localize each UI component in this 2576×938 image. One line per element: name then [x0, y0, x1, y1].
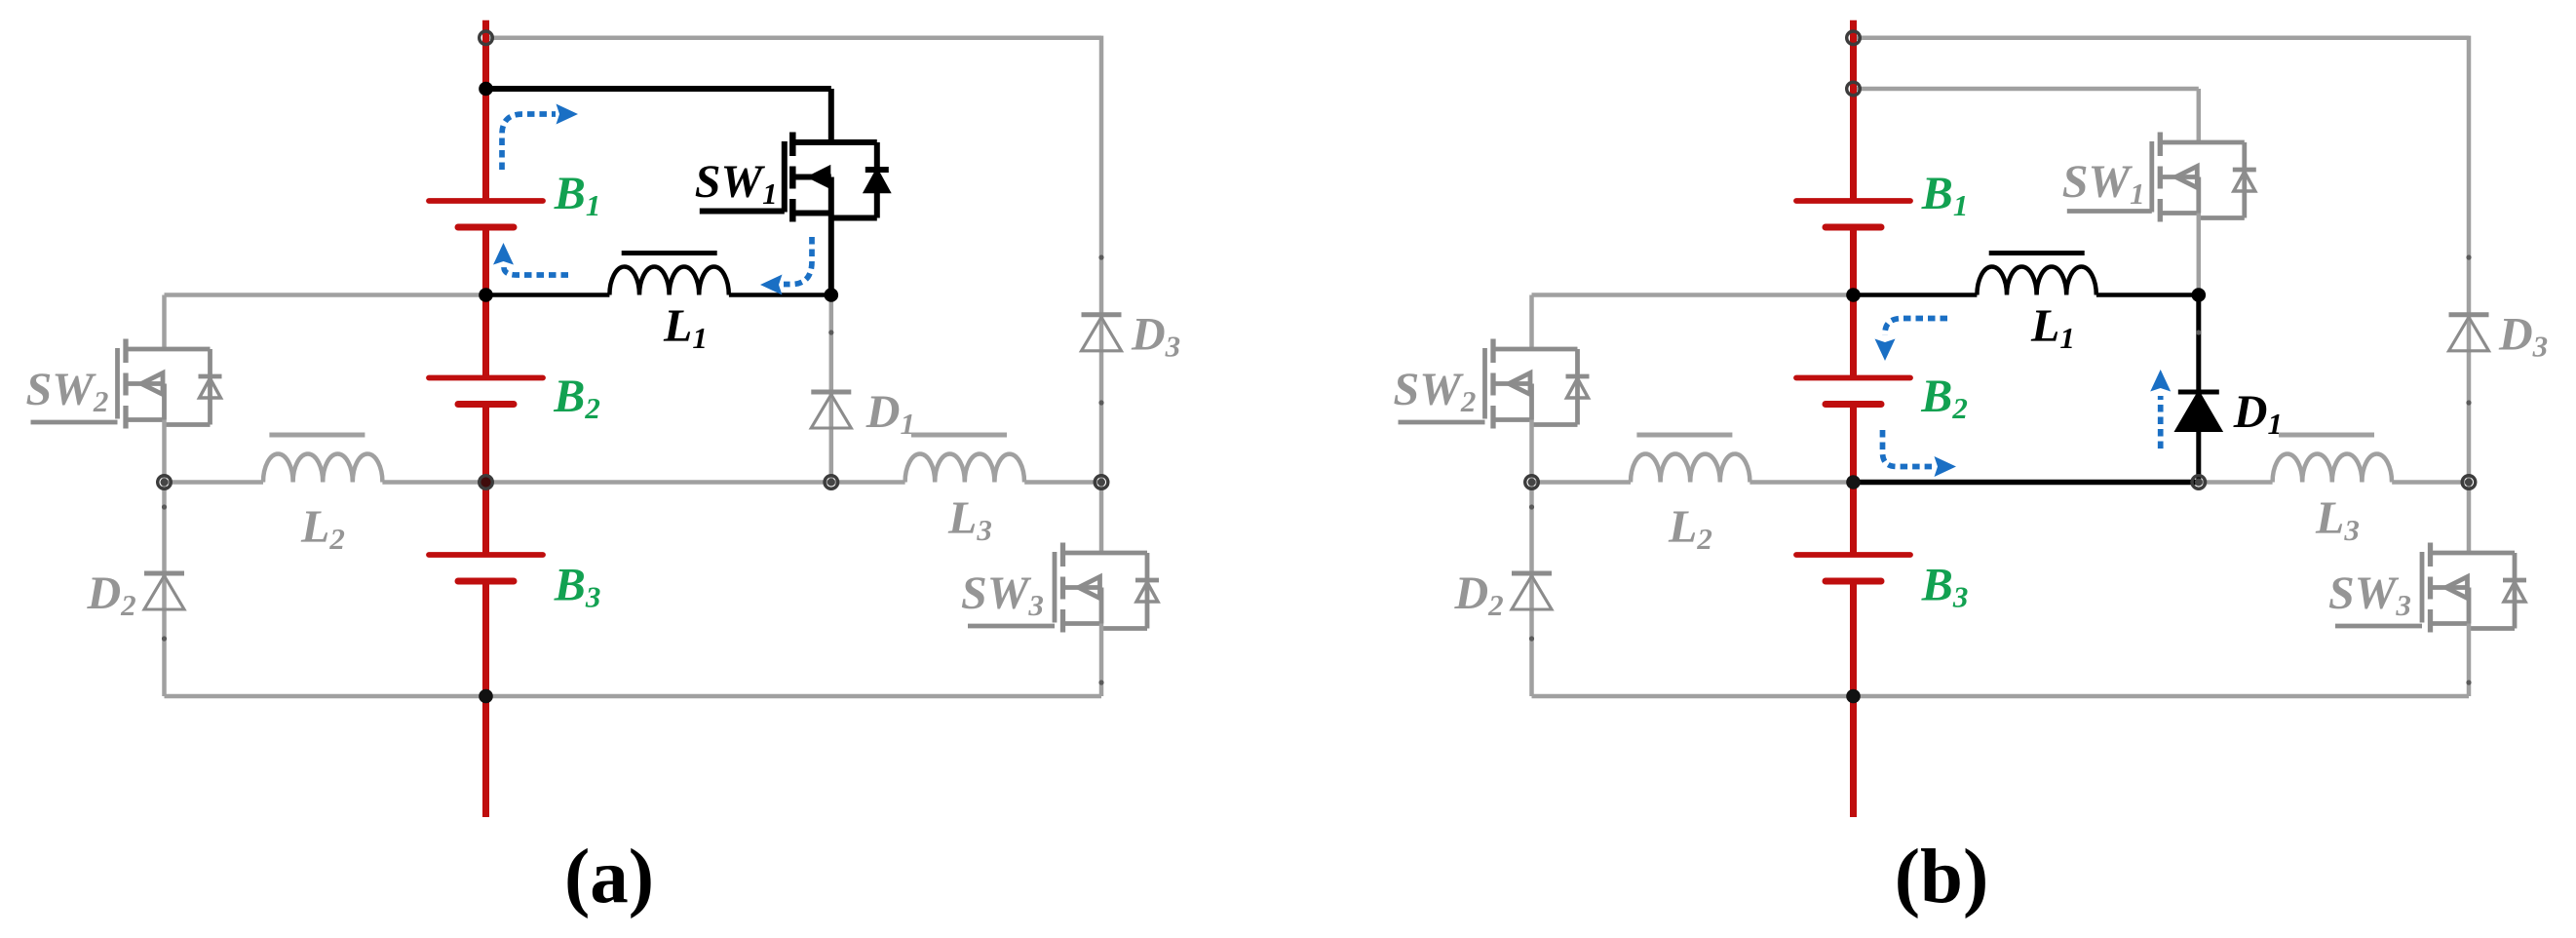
wire: left vertical with D2 (panel a) [162, 483, 167, 697]
wire: SW2 gate lead (panel b) [1399, 420, 1485, 425]
wire: mid bus right segment (panel b) [2392, 480, 2469, 485]
node: bus-D1 junction (panel a) [825, 476, 838, 489]
node: bus-right junction (panel a) [1095, 476, 1108, 489]
diode D2 (panel b) [1512, 571, 1552, 576]
node: bus-battery junction (panel b) [1846, 475, 1861, 489]
wire: SW3 gate lead (panel b) [2335, 624, 2422, 629]
wire: right edge vertical rail with D3 (panel a) [1099, 36, 1104, 483]
transistor SW1 (panel a) [782, 141, 788, 213]
current arrow: B1 to SW1 (panel a) [502, 114, 556, 170]
diode D3 (panel a) [1082, 312, 1122, 317]
inductor L2 (panel a) [263, 454, 382, 483]
battery B2 (panel a) [429, 375, 543, 381]
inductor L1 (panel a) [609, 267, 728, 295]
node: battery mid / L1 junction (panel b) [1846, 288, 1861, 302]
svg-text:(a): (a) [564, 835, 654, 919]
wire: SW1 gate lead (panel b) [2067, 209, 2152, 214]
diode D1 (panel b) [2178, 390, 2219, 395]
wire: bottom rail (panel b) [1532, 694, 2470, 699]
transistor SW3 (panel b) [2420, 552, 2425, 623]
wire: mid bus left segment (panel a) [165, 480, 264, 485]
wire: top rail from battery column to right edge (panel a) [486, 36, 1102, 41]
wire joint ticks (panel b) [2196, 330, 2201, 334]
wire: mid bus segment D1 to L3 (panel b) [2199, 480, 2273, 485]
diode D2 (panel a) [144, 571, 184, 576]
wire: SW1 source down to L1 node (panel b) [2197, 214, 2202, 295]
wire: top rail from battery column to right edge (panel b) [1854, 36, 2470, 41]
node: L1 right junction (panel b) [2192, 288, 2207, 302]
inductor L2 (panel b) [1631, 453, 1749, 482]
wire: L3 node down to SW3 drain (panel b) [2467, 483, 2472, 554]
node: bus-left junction (panel a) [158, 476, 172, 489]
node: bus-battery junction (panel a) [480, 476, 492, 489]
battery B1 (panel b) [1796, 198, 1910, 204]
wire: SW1 gate lead (panel a) [700, 209, 785, 215]
transistor SW2 (panel a) [115, 348, 120, 419]
wire joint ticks (panel a) [828, 330, 833, 334]
wire: SW2 gate lead (panel a) [31, 420, 118, 425]
wire: SW1 source down to L1 node (panel a) [828, 214, 834, 295]
transistor SW3 (panel a) [1053, 552, 1057, 623]
current arrow: SW1 source into L1 (panel a) [784, 237, 812, 285]
wire: bottom rail (panel a) [165, 694, 1102, 699]
node: bus-right junction (panel b) [2462, 476, 2476, 489]
wire: upper rail from battery top node to SW1 drain (panel b) [1854, 87, 2199, 92]
current arrow: return into battery below B1 (panel a) [504, 266, 568, 275]
diode D3 (panel b) [2449, 312, 2489, 317]
transistor SW1 (panel b) [2149, 141, 2154, 213]
battery B3 (panel a) [429, 552, 543, 558]
wire: D1 branch vertical (panel b) [2196, 295, 2201, 483]
node: upper rail junction (panel a) [479, 82, 493, 97]
current arrow: up through D1 (panel b) [2158, 396, 2164, 449]
svg-text:(b): (b) [1895, 835, 1989, 919]
wire: active bus battery to D1 (panel b) [1854, 480, 2199, 486]
battery B1 (panel a) [429, 198, 543, 204]
wire: SW3 gate lead (panel a) [968, 624, 1055, 629]
node: L1 right junction (panel a) [825, 288, 839, 302]
node: top rail junction (panel a) [480, 31, 493, 45]
current arrow: B2 out to bus (panel b) [1883, 430, 1933, 467]
transistor SW2 (panel b) [1482, 348, 1487, 419]
wire: L1 link from battery mid node (panel b) [1854, 293, 1978, 297]
wire: mid bus right segment (panel a) [1024, 480, 1101, 485]
wire: mid bus segment D1 to L3 (panel a) [831, 480, 905, 485]
wire: right edge vertical rail with D3 (panel b) [2467, 36, 2472, 483]
node: bus-D1 junction (panel b) [2192, 476, 2206, 489]
inductor L1 (panel b) [1977, 266, 2095, 294]
wire: left vertical with D2 (panel b) [1529, 483, 1534, 697]
wire: SW3 source to bottom rail (panel a) [1099, 624, 1104, 697]
wire: SW2 source to bus (panel b) [1529, 420, 1534, 483]
node: bottom-battery junction (panel a) [479, 689, 493, 704]
wire: L1 link from battery mid node (panel a) [486, 293, 610, 297]
node: bottom-battery junction (panel b) [1846, 689, 1861, 704]
wire: D1 branch vertical (panel a) [829, 295, 834, 483]
inductor L3 (panel b) [2273, 453, 2392, 482]
wire: mid bus center segment (panel b) [1749, 480, 1853, 485]
wire: L3 node down to SW3 drain (panel a) [1099, 483, 1104, 554]
node: upper rail junction (panel b) [1847, 82, 1861, 96]
wire: upper rail from battery top node to SW1 drain (panel a) [486, 86, 831, 92]
wire: battery mid node to SW2 drain (panel a) [165, 293, 486, 297]
node: top rail junction (panel b) [1847, 31, 1861, 45]
inductor L3 (panel a) [905, 453, 1024, 482]
diode D1 (panel a) [811, 390, 851, 395]
node: battery mid / L1 junction (panel a) [479, 288, 493, 302]
wire: mid bus center segment (panel a) [382, 480, 485, 485]
current arrow: node into B2 (panel b) [1885, 319, 1947, 336]
node: bus-left junction (panel b) [1525, 476, 1539, 489]
battery B2 (panel b) [1796, 375, 1910, 381]
wire: mid bus left segment (panel b) [1532, 480, 1632, 485]
wire: SW3 source to bottom rail (panel b) [2467, 624, 2472, 697]
battery B3 (panel b) [1796, 552, 1910, 558]
battery stack rail (panel b) [1850, 20, 1857, 201]
wire: battery mid node to SW2 drain (panel b) [1532, 293, 1854, 297]
wire: SW2 source to bus (panel a) [162, 420, 167, 483]
battery stack rail (panel a) [482, 20, 489, 201]
